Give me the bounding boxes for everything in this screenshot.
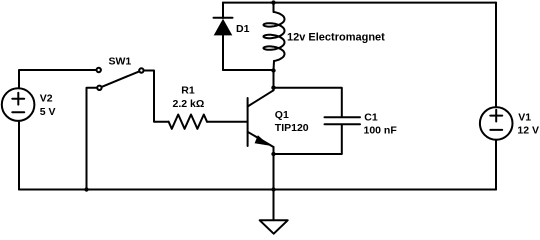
junction node coil bottom / D1 / collector [271,68,275,72]
voltage source V1 [480,107,513,140]
junction node emitter / rail / ground [271,187,275,191]
wire R1 to base [207,121,247,123]
wire C1 bottom branch [274,125,342,154]
wire top rail [223,2,496,4]
svg-text:V1: V1 [518,112,531,124]
wire switch lower throw to rail [87,88,97,190]
svg-text:12v Electromagnet: 12v Electromagnet [287,32,385,44]
wire V2 top to switch [19,70,96,88]
resistor R1 [169,115,207,129]
svg-text:R1: R1 [181,85,195,97]
wire V2 bottom to rail [18,121,20,190]
svg-text:2.2 kΩ: 2.2 kΩ [173,98,205,110]
wire bottom rail [19,189,496,191]
junction node emitter / C1 [271,152,275,156]
junction node collector / C1 [271,86,275,90]
wire collector up to coil node [273,71,275,91]
junction node switch wire / rail [84,187,88,191]
svg-text:C1: C1 [364,112,378,124]
svg-text:SW1: SW1 [109,56,132,68]
diode D1 [214,3,233,70]
transistor Q1 [248,90,274,147]
svg-text:V2: V2 [40,93,53,105]
svg-text:Q1: Q1 [275,109,289,121]
inductor L1 12v Electromagnet [264,3,285,71]
voltage source V2 [2,88,35,121]
wire C1 top branch [274,88,342,117]
junction node top rail / coil [271,0,275,4]
svg-text:TIP120: TIP120 [275,122,309,134]
svg-text:5 V: 5 V [40,106,56,118]
ground [260,190,288,234]
wire V1 top [495,3,497,108]
wire switch common to R1 [144,71,168,122]
capacitor C1 [325,117,361,124]
wire emitter down to rail [273,147,275,190]
svg-text:12 V: 12 V [517,125,539,137]
wire V1 bottom [495,140,497,190]
switch SW1 [97,68,144,90]
wire D1 to coil bottom node [223,69,274,71]
svg-text:D1: D1 [236,23,250,35]
svg-text:100 nF: 100 nF [364,125,398,137]
